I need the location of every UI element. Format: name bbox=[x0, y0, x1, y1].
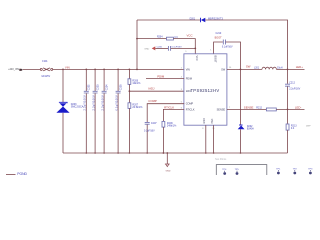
capacitor C205 bbox=[115, 69, 122, 153]
svg-text:3A/125V: 3A/125V bbox=[41, 75, 50, 78]
resistor R209 (RT) bbox=[162, 121, 177, 153]
junction VCC/bias bbox=[194, 48, 196, 50]
svg-text:C207: C207 bbox=[151, 122, 157, 125]
svg-text:GND: GND bbox=[144, 48, 149, 50]
svg-text:R212: R212 bbox=[256, 106, 262, 109]
svg-text:0.1uF/16V: 0.1uF/16V bbox=[144, 131, 155, 133]
test point TP4 bbox=[222, 169, 227, 175]
svg-text:IADJ: IADJ bbox=[186, 90, 192, 93]
svg-text:C212: C212 bbox=[289, 82, 295, 85]
wire IC GND stub bbox=[205, 125, 207, 153]
svg-text:SENSE: SENSE bbox=[217, 108, 226, 111]
wire ground bus bbox=[63, 152, 288, 154]
svg-text:C205: C205 bbox=[119, 84, 122, 90]
junction divider top bbox=[129, 69, 131, 71]
svg-text:PDIM: PDIM bbox=[186, 77, 192, 80]
diode D202 (freewheel) bbox=[238, 69, 255, 153]
junction output column bbox=[287, 69, 289, 71]
svg-text:VIN: VIN bbox=[186, 68, 190, 71]
svg-text:F201: F201 bbox=[42, 61, 48, 63]
junction C205/gnd bus bbox=[117, 152, 119, 154]
test point TP3 bbox=[308, 168, 313, 174]
resistor R213 (current sense) bbox=[286, 109, 311, 153]
wire VCC row bbox=[137, 38, 167, 40]
svg-text:0.1uF/100V: 0.1uF/100V bbox=[115, 95, 118, 111]
svg-text:SMCJ33CA: SMCJ33CA bbox=[71, 106, 84, 109]
svg-text:TPS92512HV: TPS92512HV bbox=[190, 88, 219, 93]
wire IC PAD stub bbox=[213, 125, 215, 153]
svg-text:B340A: B340A bbox=[247, 127, 254, 130]
wire VIN bus bbox=[53, 68, 185, 70]
wire RT/CLK bbox=[163, 109, 184, 121]
svg-text:Test Points: Test Points bbox=[215, 158, 227, 161]
wire vertical to top rail bbox=[136, 20, 138, 69]
svg-text:2.2uF/100V: 2.2uF/100V bbox=[84, 95, 87, 111]
junction C203/gnd bus bbox=[94, 152, 96, 154]
junction C204 bbox=[103, 69, 105, 71]
capacitor C212 (output) bbox=[285, 69, 301, 109]
resistor R212 (sense filter) bbox=[256, 106, 304, 111]
svg-text:RT/CLK: RT/CLK bbox=[164, 105, 174, 109]
junction VIN/TVS bbox=[62, 69, 64, 71]
ground bbox=[165, 153, 171, 173]
svg-text:R204: R204 bbox=[157, 37, 163, 39]
junction C207/gnd bus bbox=[146, 152, 148, 154]
junction boot/SW bbox=[240, 69, 242, 71]
wire input to fuse bbox=[23, 68, 40, 70]
junction C205 bbox=[117, 69, 119, 71]
capacitor C203 bbox=[92, 69, 99, 153]
svg-text:C202: C202 bbox=[88, 84, 91, 90]
junction PAD pin/gnd bus bbox=[213, 152, 215, 154]
wire PDIM stub bbox=[146, 78, 184, 80]
wire TVS column top bbox=[62, 69, 64, 102]
svg-text:BOOT: BOOT bbox=[214, 56, 217, 64]
svg-text:D201: D201 bbox=[190, 19, 196, 21]
port +24V_VIN bbox=[8, 69, 23, 71]
svg-text:VCC: VCC bbox=[195, 56, 198, 61]
resistor R206 bbox=[128, 69, 141, 102]
wire SENSE row bbox=[227, 108, 267, 110]
junction sense/output column bbox=[287, 109, 289, 111]
svg-text:LED+: LED+ bbox=[296, 65, 304, 69]
junction gnd symbol bbox=[166, 152, 168, 154]
svg-text:SENSE: SENSE bbox=[244, 105, 254, 109]
fuse F201 bbox=[40, 61, 52, 78]
junction VCC row bbox=[136, 38, 138, 40]
diode D201 bbox=[190, 18, 224, 23]
wire SW to LED+ bbox=[276, 68, 304, 70]
svg-text:PAD: PAD bbox=[211, 118, 214, 123]
junction R207/gnd bus bbox=[129, 152, 131, 154]
capacitor C207 (comp) bbox=[144, 122, 157, 153]
svg-text:249k/1%: 249k/1% bbox=[167, 124, 177, 127]
svg-text:IADJ: IADJ bbox=[148, 87, 155, 91]
wire top rail left bbox=[137, 19, 201, 21]
svg-text:C203: C203 bbox=[96, 84, 99, 90]
resistor R204 bbox=[157, 37, 195, 54]
junction GND pin/gnd bus bbox=[205, 152, 207, 154]
svg-text:VCC: VCC bbox=[187, 34, 193, 38]
capacitor C206 bbox=[157, 46, 196, 51]
junction D202/gnd bus bbox=[240, 152, 242, 154]
svg-text:SW: SW bbox=[221, 68, 226, 71]
svg-text:DNP: DNP bbox=[306, 126, 311, 128]
junction C202/gnd bus bbox=[86, 152, 88, 154]
test point TP2 bbox=[293, 168, 298, 174]
svg-text:PGND: PGND bbox=[17, 172, 27, 175]
wire SW row bbox=[227, 68, 262, 70]
svg-text:0.1uF/16V: 0.1uF/16V bbox=[222, 46, 233, 48]
svg-text:COMP: COMP bbox=[148, 99, 157, 103]
svg-text:VIN: VIN bbox=[65, 65, 70, 69]
svg-text:2.2uF/100V: 2.2uF/100V bbox=[101, 95, 104, 111]
wire IADJ bbox=[129, 90, 184, 92]
port PGND (bottom left) bbox=[6, 172, 28, 176]
capacitor C210 (boot) bbox=[214, 32, 241, 70]
svg-text:PDIM: PDIM bbox=[157, 74, 165, 78]
svg-text:0.1uF/16V: 0.1uF/16V bbox=[172, 47, 183, 49]
test point TP5 bbox=[235, 169, 240, 175]
test point box bbox=[216, 165, 266, 183]
junction RT/gnd bus bbox=[163, 152, 165, 154]
junction C203 bbox=[94, 69, 96, 71]
svg-text:C206: C206 bbox=[157, 47, 163, 49]
svg-text:L201: L201 bbox=[254, 68, 260, 70]
inductor L201 bbox=[254, 67, 283, 70]
junction IADJ tap bbox=[129, 90, 131, 92]
test point TP1 bbox=[276, 168, 281, 174]
capacitor C202 bbox=[84, 69, 91, 153]
svg-text:GND: GND bbox=[166, 171, 171, 173]
svg-text:+24V_VIN: +24V_VIN bbox=[8, 69, 19, 71]
svg-text:C204: C204 bbox=[105, 84, 108, 90]
wire top rail right bbox=[205, 20, 287, 69]
IC U201 TPS92512HV bbox=[184, 54, 227, 125]
svg-text:2.2uF/100V: 2.2uF/100V bbox=[92, 95, 95, 111]
svg-text:COMP: COMP bbox=[186, 103, 194, 106]
svg-text:2.2uF/16V: 2.2uF/16V bbox=[289, 88, 300, 91]
svg-text:LED-: LED- bbox=[295, 105, 302, 109]
wire TVS column bottom bbox=[62, 113, 64, 153]
svg-text:BOOT: BOOT bbox=[215, 37, 223, 40]
svg-text:GND: GND bbox=[203, 118, 206, 124]
junction top loop bbox=[136, 69, 138, 71]
svg-text:SW: SW bbox=[246, 65, 251, 69]
capacitor C204 bbox=[101, 69, 108, 153]
power arrow GND (bias row) bbox=[144, 46, 168, 50]
svg-text:10k/1%: 10k/1% bbox=[132, 82, 141, 85]
junction C204/gnd bus bbox=[103, 152, 105, 154]
TVS diode D203 bbox=[56, 102, 83, 113]
svg-text:20.5k/1%: 20.5k/1% bbox=[132, 106, 143, 109]
junction C202 bbox=[85, 69, 87, 71]
wire COMP bbox=[147, 104, 184, 123]
svg-text:RT/CLK: RT/CLK bbox=[186, 108, 195, 111]
resistor R207 bbox=[128, 103, 143, 153]
svg-text:C210: C210 bbox=[216, 32, 222, 35]
